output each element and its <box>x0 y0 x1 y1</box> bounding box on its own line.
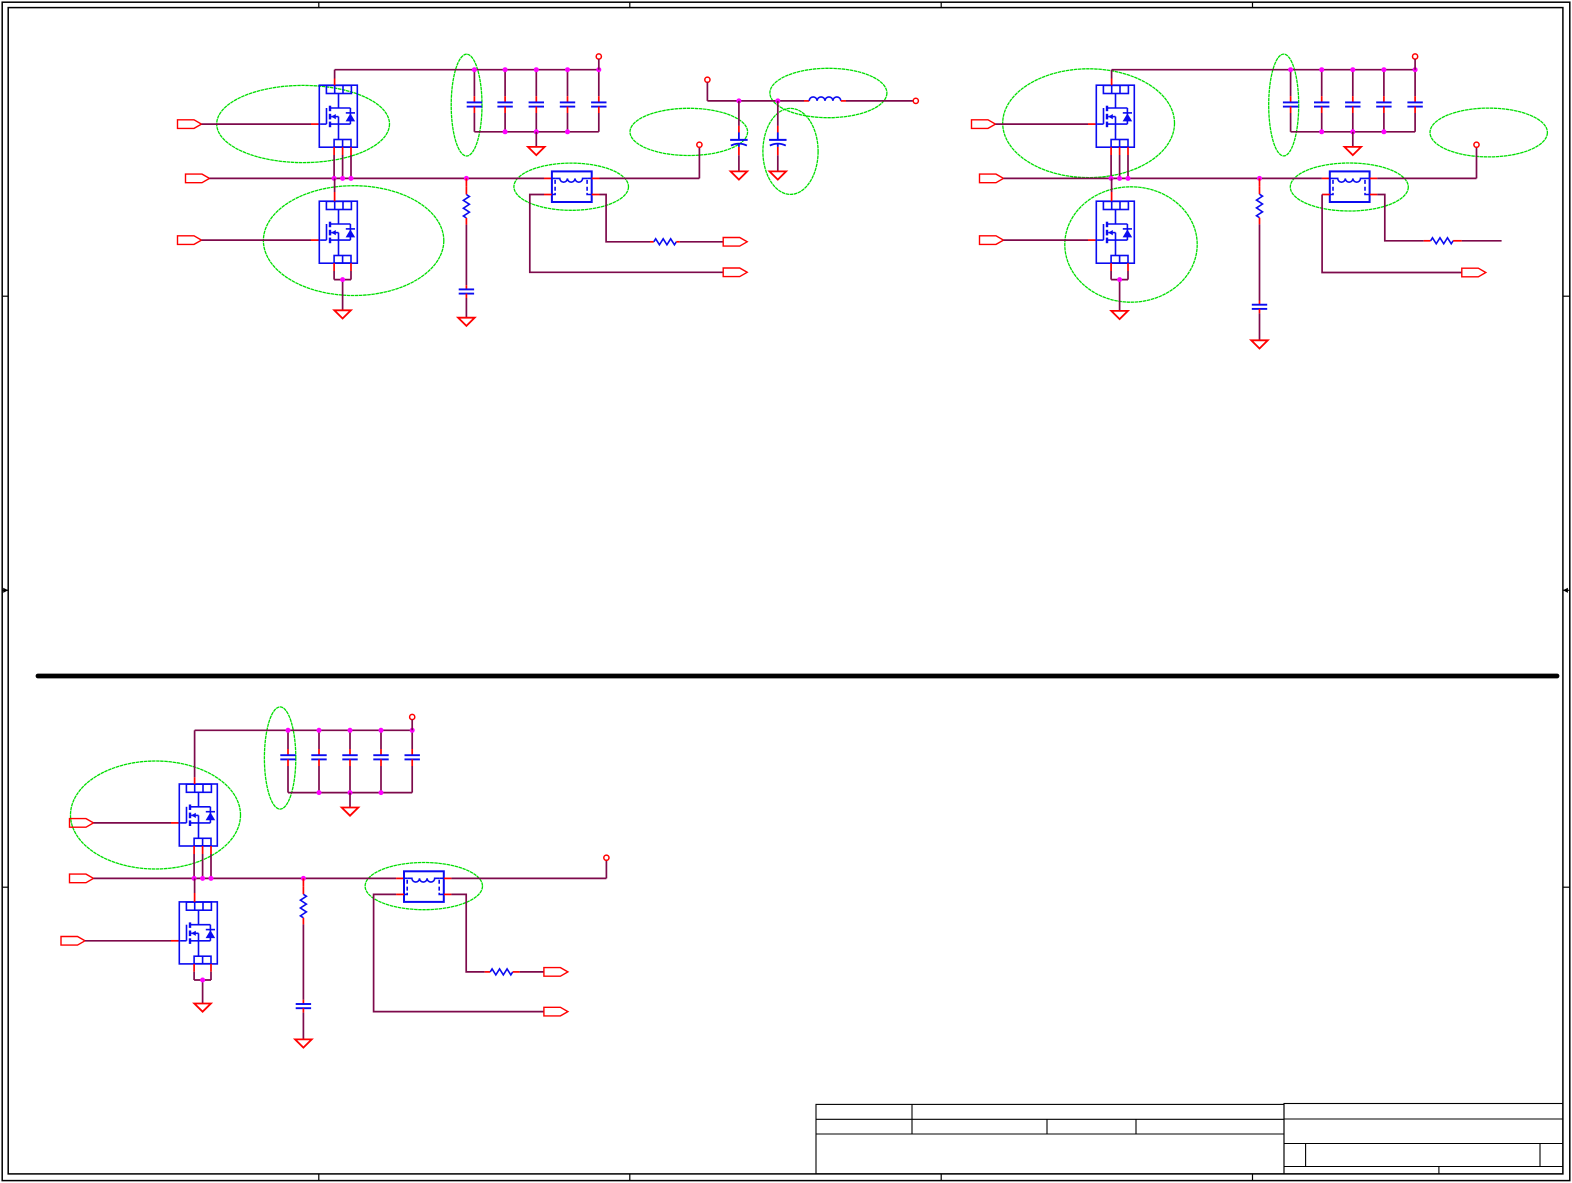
ground below C8 <box>770 171 787 179</box>
port PWM1H input arrow <box>178 120 202 129</box>
green highlight ellipse around transformer T3 <box>365 863 482 910</box>
wire Q6 source loop <box>194 964 211 1004</box>
wire C20 to ground <box>302 1008 304 1039</box>
wire phase node SW1 <box>210 177 545 179</box>
junction dots on phase at Q3 <box>1109 176 1131 181</box>
transformer T3 current sense <box>404 871 444 902</box>
port CS2- output arrow <box>1462 268 1486 277</box>
ground at Q4 source <box>1111 311 1128 319</box>
terminal phase SW1 <box>697 142 702 147</box>
left border center arrow <box>2 588 8 593</box>
mosfet Q3 <box>1096 85 1134 147</box>
title block right section <box>1284 1104 1563 1175</box>
wire R3 to C14 <box>1259 224 1261 304</box>
junction dots cap bank top <box>472 67 601 72</box>
pin stub T2 left <box>1322 177 1330 179</box>
wire PWM1H to Q1 gate <box>202 123 320 125</box>
capacitor bank C9-C13 <box>1283 70 1423 132</box>
wire cap bank 3 to ground <box>349 793 351 808</box>
junction dots cap bank bottom <box>503 129 570 134</box>
wire phase 3 to terminal <box>451 860 606 878</box>
green highlight ellipse around capacitor C9 <box>1269 54 1299 156</box>
junction dot phase resistor branch <box>464 176 469 181</box>
junction dot Q2 source loop <box>340 277 345 282</box>
wire cap bank 2 to ground <box>1352 132 1354 147</box>
pin stubs Q1 source to phase <box>334 147 351 178</box>
pin stub Q4 drain <box>1111 178 1113 201</box>
wire cap bank to ground <box>535 132 537 147</box>
green highlight ellipse around Q4 <box>1065 187 1197 302</box>
ground below C14 <box>1251 340 1268 348</box>
wire R4 right <box>1453 240 1502 242</box>
junction dots cap bank 3 bottom <box>317 790 384 795</box>
port CS3+ output arrow <box>544 968 568 977</box>
wire C6 to ground <box>465 294 467 318</box>
ground below C7 <box>731 171 748 179</box>
terminal VIN <box>596 54 601 70</box>
wire PWM1L to Q2 gate <box>202 239 320 241</box>
pin stub Q3 drain <box>1111 70 1113 86</box>
green highlight ellipse around Q5 <box>71 761 241 869</box>
terminal VIN 2 <box>1413 54 1418 70</box>
inductor L1 <box>804 97 846 101</box>
port PWM3H input arrow <box>70 819 94 828</box>
pin stub T1 right <box>592 177 600 179</box>
wire T1 sense low <box>530 195 723 273</box>
resistor R2 <box>654 239 677 245</box>
wire VIN top rail 2 <box>1112 69 1416 71</box>
junction dots cap bank 2 top <box>1288 67 1418 72</box>
capacitor bank C1-C5 <box>467 70 607 132</box>
port SW1 input arrow <box>186 174 210 183</box>
pin stub Q2 drain <box>334 178 336 201</box>
wire PWM2L to Q4 gate <box>1004 239 1097 241</box>
green highlight ellipse around phase terminal 2 <box>1430 108 1547 157</box>
resistor R6 <box>490 969 513 975</box>
green highlight ellipse around capacitor C1 <box>451 54 482 156</box>
wire T2 sense low <box>1322 195 1462 273</box>
wire T1 sense high to R2 <box>600 195 654 242</box>
thick section divider line <box>38 674 1557 679</box>
mosfet Q4 <box>1096 201 1134 263</box>
port CS3- output arrow <box>544 1007 568 1016</box>
terminal VOUT right <box>913 98 918 103</box>
mosfet Q5 <box>179 784 217 846</box>
mosfet Q6 <box>179 902 217 964</box>
pin stub T2 bottom-left <box>1322 194 1330 196</box>
wire R2 to port <box>676 241 723 243</box>
junction dots cap bank 2 bottom <box>1319 129 1386 134</box>
wire cap bank bottom rail <box>474 131 598 133</box>
ground at cap bank <box>528 147 545 155</box>
ground at Q6 source <box>194 1004 211 1012</box>
right border center arrow <box>1563 588 1570 593</box>
green highlight ellipse around output terminal <box>630 108 748 155</box>
wire Q4 source loop <box>1111 263 1128 311</box>
pin stub Q6 drain <box>194 878 196 902</box>
wire R5 to C20 <box>302 924 304 1004</box>
capacitor C14 <box>1252 305 1267 309</box>
capacitor C7 polarized <box>730 101 748 171</box>
pin stubs Q3 source to phase <box>1111 147 1128 178</box>
wire PWM3H to Q5 gate <box>94 822 180 824</box>
junction dots cap bank 3 top <box>286 728 415 733</box>
port CS1+ output arrow <box>723 238 747 247</box>
terminal phase SW2 <box>1474 142 1479 147</box>
junction dot phase 2 resistor branch <box>1257 176 1262 181</box>
mosfet Q2 <box>319 201 357 263</box>
junction dots on phase at Q5 <box>192 876 214 881</box>
pin stub T2 bottom-right <box>1370 194 1377 196</box>
ground at cap bank 3 <box>342 808 359 816</box>
wire VIN top rail <box>335 69 599 71</box>
title block left section <box>816 1104 1284 1174</box>
wire output rail <box>707 100 913 102</box>
port PWM1L input arrow <box>178 236 202 245</box>
green highlight ellipse around transformer T2 <box>1290 163 1408 211</box>
wire phase 2 to terminal <box>1377 147 1476 178</box>
wire cap bank 2 bottom rail <box>1291 131 1416 133</box>
green highlight ellipse around capacitor C7 <box>763 108 818 194</box>
pin stub T3 right <box>444 877 451 879</box>
capacitor C8 polarized <box>769 101 787 171</box>
resistor R3 <box>1257 178 1263 224</box>
green highlight ellipse around capacitor C15 <box>264 707 295 809</box>
pin stub T1 bottom-right <box>592 194 600 196</box>
junction dot phase 3 resistor branch <box>301 876 306 881</box>
pin stub T2 right <box>1370 177 1377 179</box>
junction dots on phase at Q1 <box>332 176 354 181</box>
pin stub Q1 drain <box>334 70 336 86</box>
wire R6 to port <box>513 971 544 973</box>
green highlight ellipse around Q3 <box>1003 69 1175 178</box>
green highlight ellipse around inductor L1 <box>770 68 887 117</box>
wire Q2 source loop <box>334 263 351 310</box>
capacitor bank C15-C19 <box>280 730 420 792</box>
port PWM2H input arrow <box>972 120 996 129</box>
resistor R4 <box>1431 238 1454 244</box>
resistor R5 <box>300 878 306 924</box>
wire PWM2H to Q3 gate <box>996 123 1097 125</box>
wire phase node SW3 <box>94 877 397 879</box>
transformer T1 current sense <box>552 171 592 202</box>
wire VIN top rail 3 <box>195 729 413 731</box>
wire T3 sense high to R6 <box>451 894 490 972</box>
terminal VIN 3 <box>410 714 415 730</box>
wire C14 to ground <box>1259 309 1261 340</box>
wire cap bank 3 bottom rail <box>288 792 412 794</box>
junction dots output rail <box>736 98 780 103</box>
port PWM2L input arrow <box>980 236 1004 245</box>
port CS1- output arrow <box>723 268 747 277</box>
junction dot Q6 source loop <box>200 978 205 983</box>
resistor R1 <box>463 178 469 224</box>
capacitor C6 <box>459 289 474 293</box>
ground below C20 <box>295 1039 312 1047</box>
ground at cap bank 2 <box>1345 147 1362 155</box>
pin stub T3 left <box>396 877 404 879</box>
port PWM3L input arrow <box>61 937 85 946</box>
mosfet Q1 <box>319 85 357 147</box>
pin stub T3 bottom-left <box>396 893 404 895</box>
pin stub Q5 drain <box>194 730 196 784</box>
pin stub T3 bottom-right <box>444 893 451 895</box>
wire R1 to C6 <box>465 225 467 290</box>
green highlight ellipse around Q1 <box>217 85 390 162</box>
pin stub T1 left <box>544 177 552 179</box>
ground below C6 <box>458 318 475 326</box>
wire phase to output terminal <box>600 147 700 178</box>
green highlight ellipse around transformer T1 <box>514 163 629 210</box>
port SW3 input arrow <box>70 874 94 883</box>
pin stubs Q5 source to phase <box>194 846 211 878</box>
green highlight ellipse around Q2 <box>263 186 443 296</box>
wire T3 sense low <box>374 894 544 1011</box>
terminal VOUT upper <box>705 77 710 101</box>
wire phase node SW2 <box>1004 177 1322 179</box>
capacitor C20 <box>296 1004 311 1008</box>
wire T2 sense high to R4 <box>1377 195 1430 241</box>
terminal phase SW3 <box>604 855 609 860</box>
pin stub T1 bottom-left <box>544 194 552 196</box>
junction dot Q4 source loop <box>1117 277 1122 282</box>
ground at Q2 source <box>334 310 351 318</box>
wire PWM3L to Q6 gate <box>85 940 179 942</box>
port SW2 input arrow <box>980 174 1004 183</box>
transformer T2 current sense <box>1330 171 1370 202</box>
